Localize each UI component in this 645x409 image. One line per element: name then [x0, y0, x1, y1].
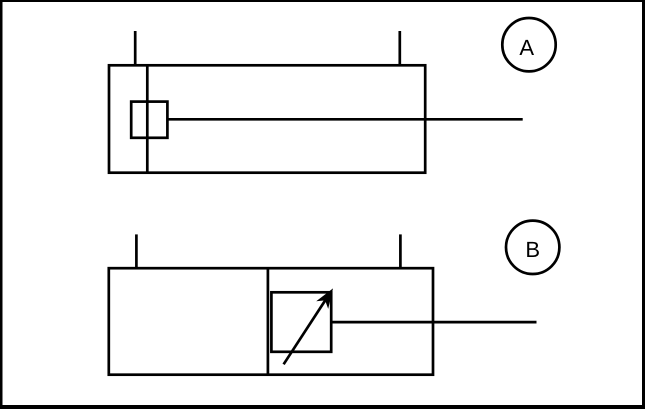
border frame right: [642, 0, 645, 409]
border frame top: [0, 0, 645, 2]
cylinder B cushion square: [271, 292, 331, 352]
cylinder A piston line: [146, 65, 149, 172]
svg-text:B: B: [525, 237, 540, 262]
label circle A: [502, 18, 555, 71]
label circle B: [506, 221, 559, 274]
cylinder A left port stub: [134, 31, 137, 65]
border frame left: [0, 0, 3, 409]
cylinder A rod wire: [167, 118, 522, 121]
svg-text:A: A: [519, 35, 534, 60]
cylinder B rod wire: [331, 321, 536, 324]
cylinder B piston line: [267, 268, 270, 375]
cylinder A right port stub: [398, 31, 401, 65]
border frame bottom: [0, 405, 645, 409]
cylinder B right port stub: [399, 234, 402, 268]
cylinder B body: [109, 268, 433, 375]
adjustability arrow head: [316, 288, 333, 309]
cylinder A body: [109, 65, 425, 172]
cylinder A piston seal square: [131, 102, 167, 138]
cylinder B left port stub: [135, 234, 138, 268]
adjustability arrow shaft: [284, 297, 328, 364]
